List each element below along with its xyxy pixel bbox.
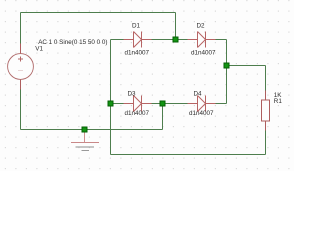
svg-text:d1n4007: d1n4007 xyxy=(189,110,214,117)
svg-text:D1: D1 xyxy=(132,23,141,30)
svg-text:d1n4007: d1n4007 xyxy=(125,110,150,117)
svg-text:D2: D2 xyxy=(197,23,206,30)
svg-text:V1: V1 xyxy=(35,46,43,53)
svg-text:AC 1 0 Sine(0 15 50 0 0): AC 1 0 Sine(0 15 50 0 0) xyxy=(38,39,107,46)
svg-text:d1n4007: d1n4007 xyxy=(125,50,150,57)
svg-text:D3: D3 xyxy=(128,90,137,97)
svg-text:R1: R1 xyxy=(274,98,283,105)
svg-text:D4: D4 xyxy=(194,90,203,97)
svg-text:d1n4007: d1n4007 xyxy=(191,50,216,57)
